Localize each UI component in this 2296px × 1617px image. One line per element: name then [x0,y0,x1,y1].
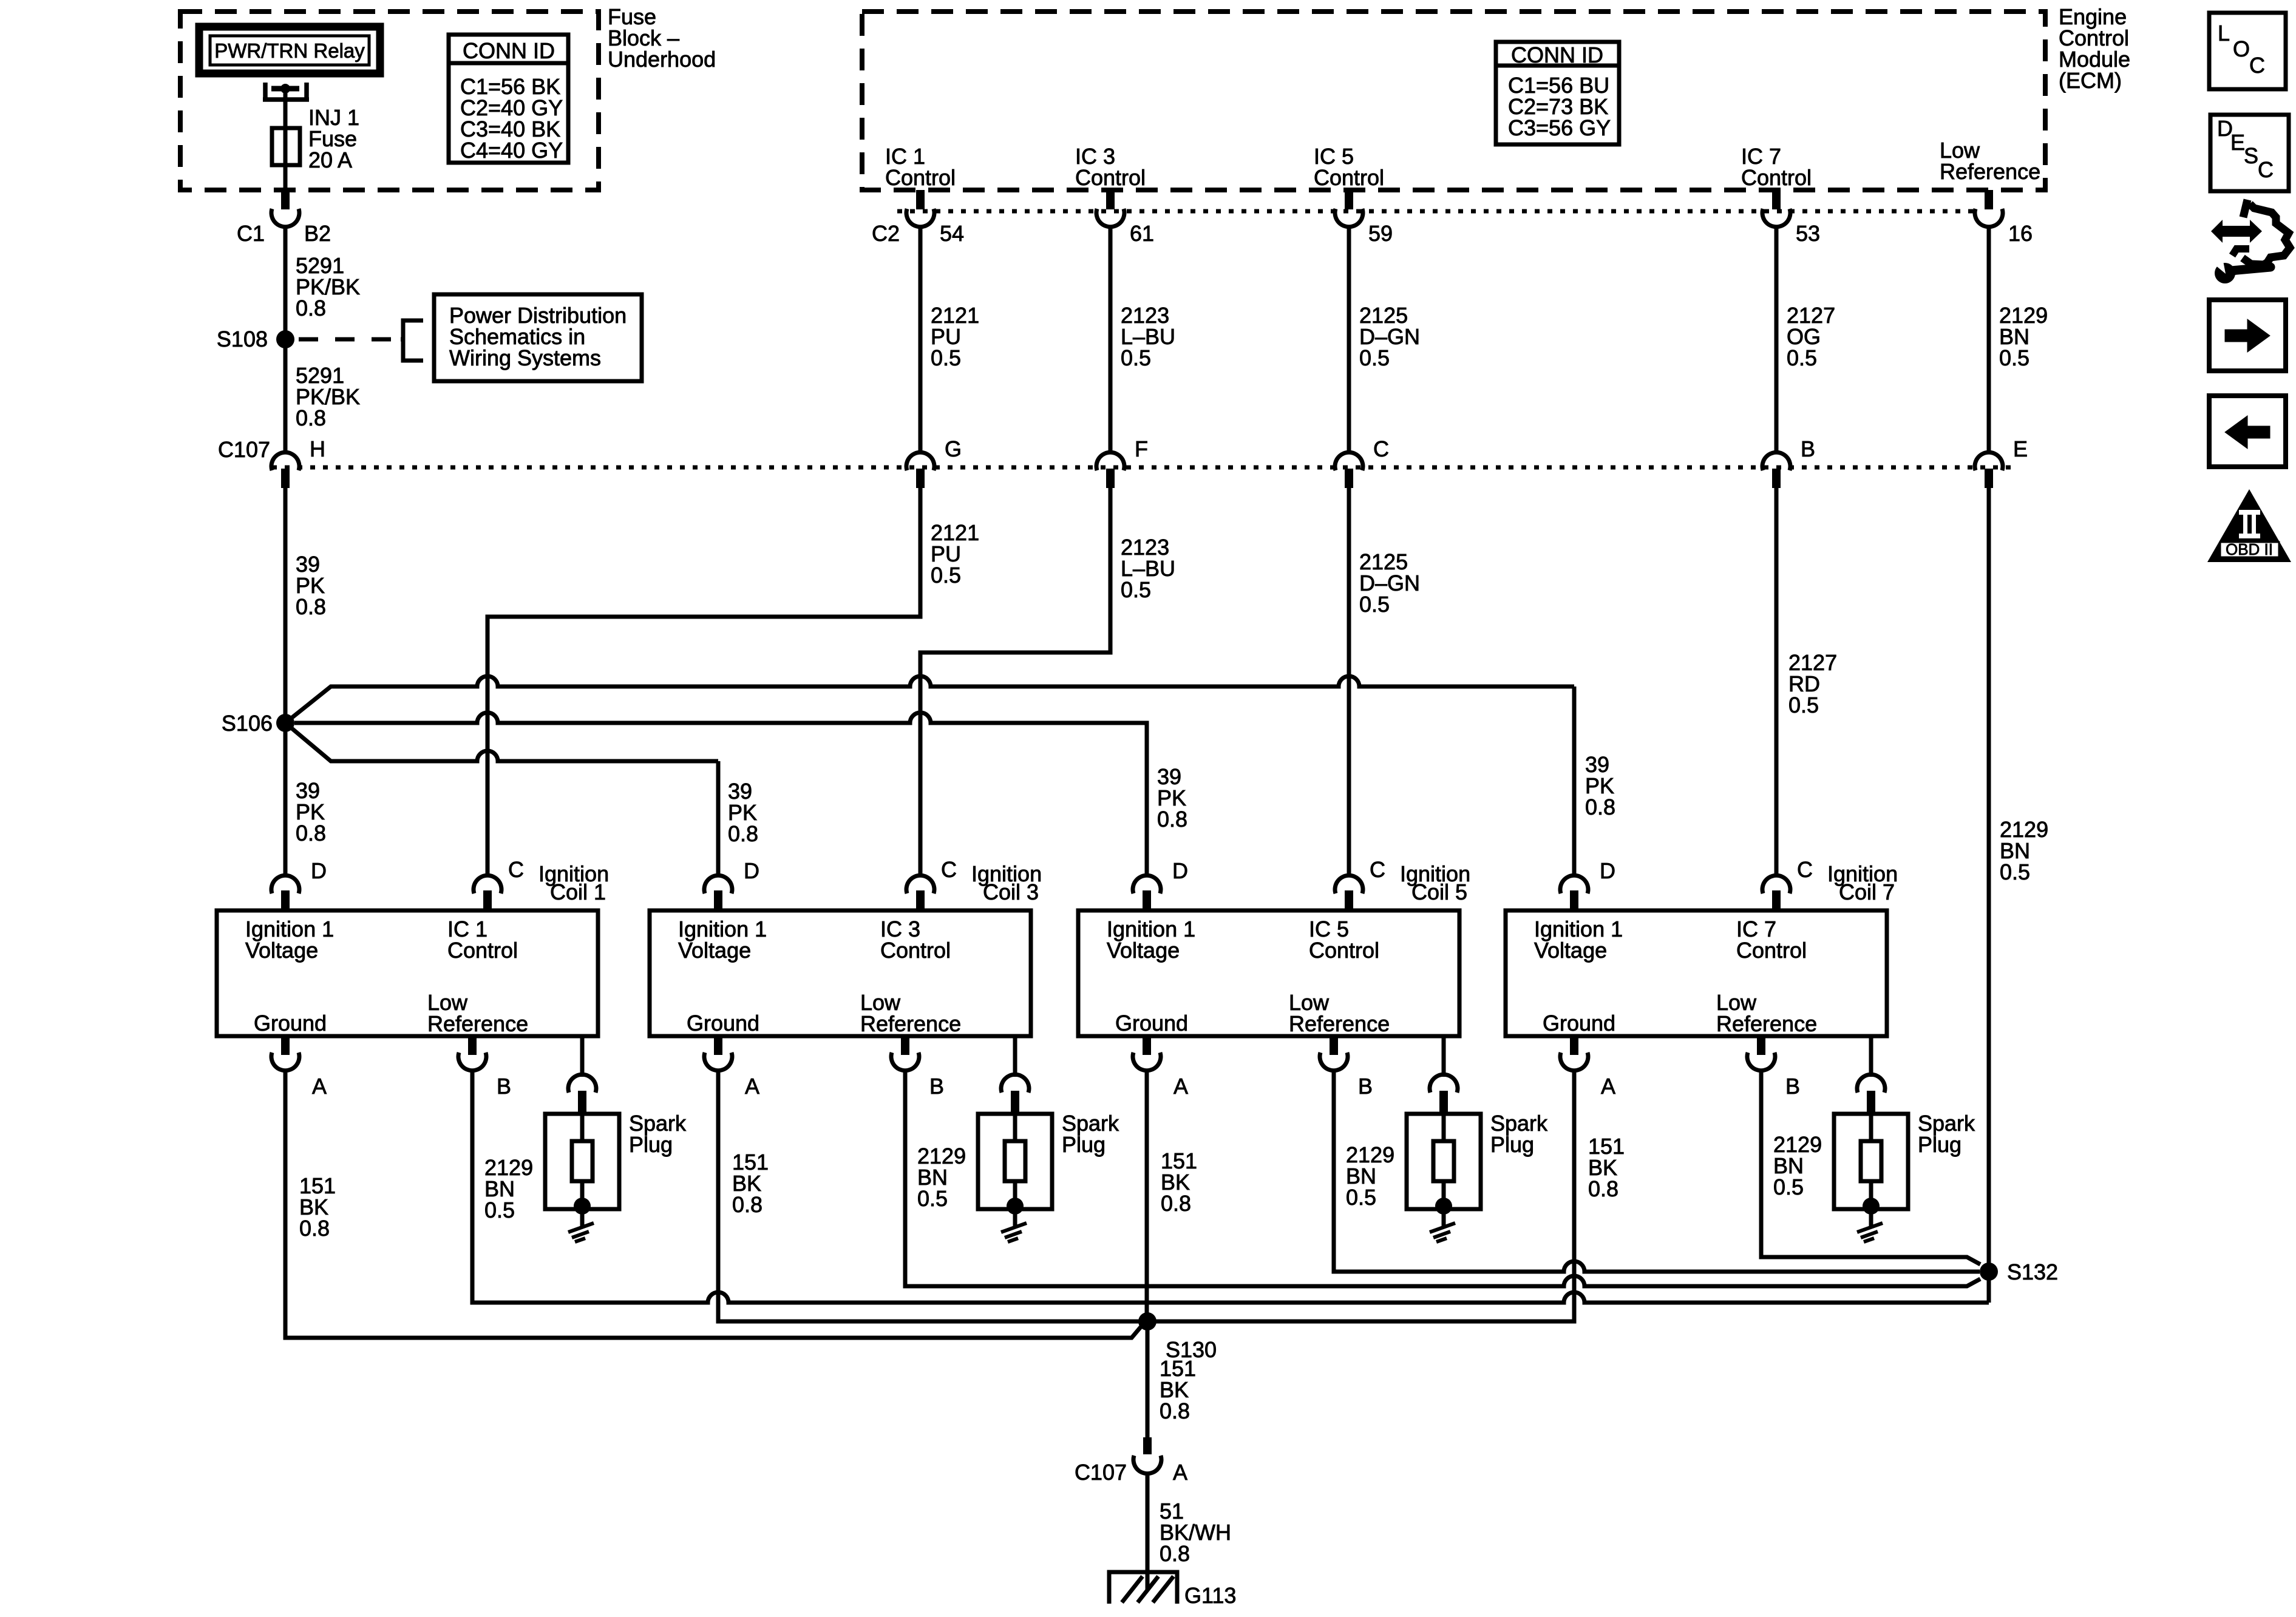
C107 pin E stub [1985,469,1993,488]
spark plug 7 box [1834,1114,1908,1209]
svg-text:S: S [2244,143,2258,168]
C107 pin C arc [1335,452,1363,470]
spark plug 5 chassis ground [1430,1223,1455,1242]
svg-text:E: E [2013,436,2028,461]
ignition coil 5 box [1078,910,1459,1036]
spark plug 3 inner wire top [1013,1114,1017,1142]
C107 pin A stub [1143,1437,1152,1454]
svg-text:Reference: Reference [1289,1011,1390,1036]
svg-text:C: C [508,857,524,882]
svg-text:0.5: 0.5 [1359,345,1390,370]
svg-text:(ECM): (ECM) [2059,68,2122,93]
svg-text:C107: C107 [218,437,270,462]
svg-text:CONN ID: CONN ID [1511,42,1603,67]
wire circuit 2121 ECM to C107 [919,226,923,454]
wire 151 BK S130 to C107 A [1146,1321,1150,1437]
svg-text:16: 16 [2008,221,2033,246]
wire fan top drop [1572,686,1577,876]
svg-text:C2: C2 [872,221,900,246]
spark plug 7 stub [1867,1091,1875,1114]
spark plug 5 stub [1439,1091,1448,1114]
svg-text:Voltage: Voltage [1107,938,1180,963]
svg-text:Reference: Reference [427,1011,528,1036]
coil 1 pin D stub [281,890,290,910]
coil 1 pin C stub [483,890,492,910]
C107 pin H arc [271,452,299,470]
C107 pin F arc [1096,452,1124,470]
wire coil5 A ground to S130 [1145,1070,1149,1321]
svg-text:53: 53 [1796,221,1820,246]
svg-text:59: 59 [1368,221,1393,246]
svg-text:Wiring Systems: Wiring Systems [449,345,601,370]
wire 39 PK (S106 to coil1 D) [284,723,288,876]
svg-text:0.8: 0.8 [732,1192,763,1217]
svg-text:0.8: 0.8 [299,1216,330,1241]
wire 51 BK/WH to G113 [1146,1473,1150,1590]
svg-text:0.5: 0.5 [484,1198,515,1222]
coil 1 pin A arc [271,1053,299,1071]
svg-text:B2: B2 [304,221,331,246]
relay PWR/TRN Relay box outer [199,27,380,73]
spark plug 5 resistor [1433,1141,1454,1181]
svg-text:D: D [744,858,759,883]
svg-text:C: C [1797,857,1813,882]
wire coil 5 to spark plug [1442,1036,1446,1077]
ignition coil 7 box [1506,910,1887,1036]
svg-text:Control: Control [1736,938,1807,963]
svg-text:B: B [497,1074,511,1099]
coil 3 pin D arc [704,875,732,893]
spark plug 3 box [978,1114,1052,1209]
coil 3 pin A arc [704,1053,732,1071]
splice S132 [1980,1263,1998,1281]
wire coil3 A ground to S130 [718,1070,1147,1321]
svg-text:Ground: Ground [254,1011,327,1036]
wire 5291 upper segment [284,226,288,333]
svg-text:Plug: Plug [1918,1132,1961,1157]
conn id table (ECM) box [1496,42,1619,144]
icon LOC box [2209,13,2286,89]
svg-text:CONN ID: CONN ID [463,38,555,63]
spark plug 5 ground dot [1435,1198,1452,1215]
coil 5 pin B stub [1330,1036,1338,1055]
svg-text:Voltage: Voltage [245,938,318,963]
spark plug 5 inner wire bottom [1442,1181,1446,1226]
ECM pin 59 arc [1335,209,1363,227]
spark plug 1 inner wire top [580,1114,585,1142]
svg-text:0.8: 0.8 [1161,1191,1191,1216]
fuse block underhood dashed enclosure [180,12,599,190]
C107 pin H stub [281,469,290,488]
coil 7 pin D stub [1570,890,1578,910]
coil 7 pin C arc [1762,875,1790,893]
svg-text:Voltage: Voltage [678,938,751,963]
svg-text:Reference: Reference [1716,1011,1817,1036]
svg-text:A: A [312,1074,327,1099]
coil 1 pin D arc [271,875,299,893]
spark plug 3 inner wire bottom [1013,1181,1017,1226]
svg-text:Underhood: Underhood [608,47,716,72]
svg-text:S108: S108 [217,327,268,351]
svg-text:Control: Control [880,938,951,963]
icon left arrow [2225,416,2270,449]
coil 5 pin A stub [1143,1036,1151,1055]
svg-text:0.8: 0.8 [296,594,326,619]
svg-text:Ground: Ground [687,1011,759,1036]
wire 39 PK upper (C107 H to S106) [284,488,288,719]
coil 3 pin B stub [901,1036,909,1055]
wire circuit 2127 ECM to C107 [1775,226,1779,454]
wire coil7 B low ref to S132 [1761,1070,1980,1264]
wire coil3 B low ref to S132 [905,1070,1980,1286]
wire coil1 A ground to S130 [285,1070,1141,1338]
coil 1 pin A stub [281,1036,290,1055]
spark plug 1 resistor [572,1141,593,1181]
svg-text:C107: C107 [1075,1460,1127,1485]
reference bracket [401,320,423,361]
coil 7 pin A arc [1560,1053,1588,1071]
icon right arrow box [2209,300,2286,371]
svg-text:S132: S132 [2007,1259,2058,1284]
svg-text:Reference: Reference [860,1011,961,1036]
svg-text:E: E [2230,130,2245,155]
icon OBD II label band [2220,542,2279,557]
svg-text:0.8: 0.8 [728,821,758,846]
coil 5 pin B arc [1320,1053,1348,1071]
wire 39 PK fan bottom (to coil3 D) [285,723,718,761]
svg-text:0.5: 0.5 [1788,693,1819,717]
splice S130 [1138,1312,1156,1331]
svg-text:54: 54 [940,221,964,246]
svg-text:C3=56 GY: C3=56 GY [1508,115,1611,140]
svg-text:0.8: 0.8 [1160,1541,1190,1566]
svg-text:Plug: Plug [629,1132,673,1157]
ECM pin 53 arc [1762,209,1790,227]
spark plug 7 inner wire top [1869,1114,1873,1142]
svg-text:0.5: 0.5 [1999,345,2029,370]
icon body outline [2243,200,2290,265]
C107 pin F stub [1106,469,1115,488]
splice S108 [276,330,294,348]
svg-text:B: B [1358,1074,1373,1099]
icon LOC letters [2218,21,2265,78]
wire 2129 BN lower (to S132) [1987,488,1991,1303]
svg-text:0.5: 0.5 [1121,577,1151,602]
wire circuit 2129 ECM to C107 [1987,226,1991,454]
spark plug 1 ground dot [574,1198,591,1215]
svg-text:D: D [311,858,327,883]
spark plug 3 chassis ground [1001,1223,1027,1242]
icon body zigzag [2232,249,2249,256]
svg-text:Coil 1: Coil 1 [550,880,606,904]
svg-text:A: A [1173,1460,1187,1485]
wire coil 7 to spark plug [1869,1036,1873,1077]
ECM pin 59 stub [1345,190,1353,209]
svg-text:Control: Control [1314,165,1384,190]
wire fan bottom drop [716,761,721,876]
svg-text:0.8: 0.8 [1160,1398,1190,1423]
svg-text:61: 61 [1130,221,1154,246]
svg-text:0.5: 0.5 [1346,1185,1376,1210]
spark plug 1 chassis ground [568,1223,594,1242]
power distribution schematics box [434,294,642,381]
wire relay to fuse [284,91,288,192]
ignition coil 1 box [217,910,598,1036]
svg-text:0.5: 0.5 [931,345,961,370]
svg-text:Reference: Reference [1940,159,2040,184]
spark plug 3 resistor [1005,1141,1025,1181]
svg-text:G: G [945,436,962,461]
C107 connector dotted line [272,466,2014,470]
svg-text:0.5: 0.5 [1787,345,1817,370]
icon right arrow [2225,319,2270,352]
coil 3 pin D stub [714,890,722,910]
coil 3 pin C arc [906,875,934,893]
spark plug 7 boot arc [1857,1074,1885,1093]
ECM dashed enclosure [862,12,2045,190]
svg-text:G113: G113 [1184,1583,1236,1608]
C107 pin G arc [906,452,934,470]
connector C1 pin B2 arc [271,209,299,227]
wire 2125 D-GN lower (to coil5 C) [1347,488,1351,876]
C107 pin G stub [916,469,925,488]
coil 3 pin B arc [891,1053,919,1071]
spark plug 5 inner wire top [1442,1114,1446,1142]
dashed reference link from S108 [299,337,398,342]
wire coil 3 to spark plug [1013,1036,1017,1077]
ECM pin 61 arc [1096,209,1124,227]
wire circuit 2125 ECM to C107 [1347,226,1351,454]
ECM pin 54 stub [916,190,925,209]
spark plug 3 boot arc [1001,1074,1029,1093]
svg-text:Control: Control [1309,938,1379,963]
wire 39 PK fan top (to coil7 D) [285,676,1574,723]
svg-text:A: A [1601,1074,1615,1099]
conn id table (fuse block) title sep [449,61,568,66]
svg-text:A: A [745,1074,759,1099]
ECM pin 61 stub [1106,190,1115,209]
wire circuit 2123 ECM to C107 [1109,226,1113,454]
svg-text:Plug: Plug [1062,1132,1106,1157]
svg-text:C: C [1373,436,1389,461]
svg-text:0.8: 0.8 [1588,1176,1618,1201]
svg-text:0.5: 0.5 [1121,345,1151,370]
svg-text:D: D [1172,858,1188,883]
coil 7 pin C stub [1772,890,1781,910]
ECM pin 16 arc [1975,209,2003,227]
wire coil1 B low ref to S132 rail [472,1070,1989,1303]
svg-text:0.5: 0.5 [1359,592,1390,617]
svg-text:Coil 5: Coil 5 [1411,880,1467,904]
coil 5 pin C arc [1335,875,1363,893]
coil 5 pin A arc [1133,1053,1161,1071]
icon double arrow [2211,220,2262,243]
svg-text:B: B [929,1074,944,1099]
ECM pin 16 stub [1985,190,1993,209]
C107 pin A arc [1133,1456,1161,1474]
icon DESC box [2210,115,2289,191]
svg-text:0.5: 0.5 [931,563,961,588]
coil 7 pin A stub [1570,1036,1578,1055]
coil 1 pin B stub [468,1036,477,1055]
C107 pin B arc [1762,452,1790,470]
svg-text:0.8: 0.8 [296,296,326,320]
icon wrench [2215,261,2271,283]
svg-text:0.5: 0.5 [917,1186,948,1211]
splice S106 [276,714,294,732]
svg-text:A: A [1173,1074,1188,1099]
ECM connector face dotted line [897,209,1975,214]
coil 7 pin B arc [1747,1053,1775,1071]
svg-text:20 A: 20 A [308,147,352,172]
ground G113 symbol [1109,1572,1177,1604]
svg-text:0.8: 0.8 [296,821,326,846]
svg-text:0.8: 0.8 [296,405,326,430]
wire coil 1 to spark plug [580,1036,585,1077]
svg-text:C: C [2249,53,2265,78]
svg-text:C: C [941,857,957,882]
svg-text:Ground: Ground [1543,1011,1615,1036]
svg-text:C: C [1370,857,1385,882]
svg-text:0.5: 0.5 [1773,1175,1804,1199]
svg-text:C4=40 GY: C4=40 GY [460,138,563,163]
icon OBD II triangle [2207,489,2291,562]
spark plug 1 inner wire bottom [580,1181,585,1226]
svg-text:O: O [2233,36,2250,61]
svg-text:Ground: Ground [1115,1011,1188,1036]
icon left arrow box [2209,396,2286,467]
ECM pin 53 stub [1772,190,1781,209]
coil 5 pin D arc [1133,875,1161,893]
svg-text:H: H [310,436,325,461]
spark plug 7 inner wire bottom [1869,1181,1873,1226]
wire coil7 A ground to S130 [1147,1070,1574,1321]
svg-text:B: B [1801,436,1815,461]
coil 1 pin C arc [474,875,501,893]
svg-text:PWR/TRN Relay: PWR/TRN Relay [214,39,365,62]
C107 pin E arc [1975,452,2003,470]
relay contact bracket [263,83,309,100]
spark plug 3 stub [1011,1091,1019,1114]
spark plug 5 box [1407,1114,1481,1209]
svg-text:OBD II: OBD II [2226,540,2273,558]
C107 pin C stub [1345,469,1353,488]
wire 5291 lower segment [284,346,288,454]
svg-text:S106: S106 [222,711,273,736]
spark plug 5 boot arc [1430,1074,1458,1093]
wire 2123 L-BU lower (to coil3 C) [920,488,1110,876]
svg-text:Voltage: Voltage [1534,938,1607,963]
relay contact bar [271,86,299,92]
coil 7 pin D arc [1560,875,1588,893]
wire 39 PK fan mid (to coil5 D) [294,713,1147,876]
svg-text:D: D [1600,858,1615,883]
spark plug 7 resistor [1861,1141,1881,1181]
svg-text:Coil 7: Coil 7 [1839,880,1895,904]
svg-text:Control: Control [447,938,518,963]
icon DESC letters [2217,116,2274,182]
relay contact dot [280,84,290,93]
svg-text:Plug: Plug [1490,1132,1534,1157]
svg-text:Control: Control [1741,165,1812,190]
spark plug 7 chassis ground [1857,1223,1883,1242]
spark plug 7 ground dot [1863,1198,1880,1215]
relay PWR/TRN Relay box inner [210,36,369,65]
wire 2127 RD lower (to coil7 C) [1775,488,1779,876]
coil 5 pin D stub [1143,890,1151,910]
connector C1 pin stub [281,192,290,209]
svg-text:0.5: 0.5 [2000,859,2030,884]
svg-text:C1: C1 [237,221,265,246]
coil 1 pin B arc [458,1053,486,1071]
conn id table (ECM) title sep [1496,64,1619,68]
ignition coil 3 box [650,910,1031,1036]
coil 7 pin B stub [1757,1036,1765,1055]
ECM pin 54 arc [906,209,934,227]
coil 3 pin C stub [916,890,925,910]
svg-text:B: B [1785,1074,1800,1099]
fuse INJ 1 20A [272,128,300,165]
svg-text:Coil 3: Coil 3 [983,880,1039,904]
svg-text:C: C [2258,157,2274,182]
spark plug 1 box [545,1114,619,1209]
spark plug 1 boot arc [568,1074,596,1093]
icon OBD II pillar [2239,510,2260,538]
spark plug 1 stub [578,1091,586,1114]
svg-text:F: F [1135,436,1148,461]
C107 pin B stub [1772,469,1781,488]
svg-text:Control: Control [1075,165,1146,190]
conn id table (fuse block) box [449,35,568,163]
svg-text:0.8: 0.8 [1585,795,1615,819]
coil 5 pin C stub [1345,890,1353,910]
spark plug 3 ground dot [1007,1198,1024,1215]
svg-text:0.8: 0.8 [1157,807,1187,832]
svg-text:Control: Control [885,165,956,190]
svg-text:L: L [2218,21,2230,46]
wire coil5 B low ref to S132 [1334,1070,1980,1272]
wire 2121 PU lower (to coil1 C) [487,488,920,876]
coil 3 pin A stub [714,1036,722,1055]
